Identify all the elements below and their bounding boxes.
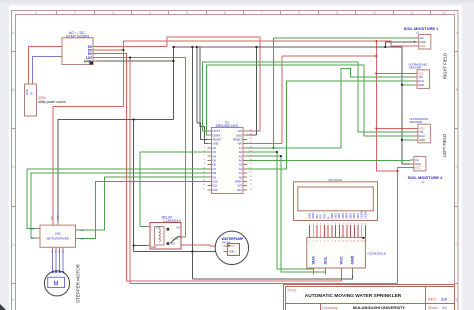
svg-text:D7: D7 bbox=[213, 167, 217, 171]
wire motor phase B1 bbox=[55, 252, 57, 272]
I2C module bottom pin stubs bbox=[314, 268, 353, 275]
svg-text:ECH: ECH bbox=[418, 79, 424, 83]
svg-text:GND: GND bbox=[151, 246, 157, 249]
wire motor phase A2 bbox=[62, 252, 64, 272]
svg-text:LEDK: LEDK bbox=[363, 211, 367, 218]
ultrasonic sensor 1 body bbox=[417, 70, 430, 89]
svg-text:Ain: Ain bbox=[420, 36, 424, 40]
wire soil moisture 1 GND bbox=[385, 42, 415, 47]
svg-text:TITLE:: TITLE: bbox=[287, 289, 297, 293]
svg-text:1/1: 1/1 bbox=[442, 306, 447, 310]
wire 5V top rail to arduino VIN bbox=[95, 37, 260, 131]
step-down converter U3 body bbox=[62, 38, 93, 65]
svg-text:GND: GND bbox=[419, 138, 425, 142]
water pump circle bbox=[215, 231, 248, 264]
title block outer border bbox=[284, 285, 455, 310]
svg-text:A6: A6 bbox=[239, 150, 243, 154]
motor driver left pin stubs bbox=[36, 229, 40, 239]
wire utility 5V (blue) bbox=[33, 57, 58, 80]
wire D1/TX to ultrasonic 2 TRIG bbox=[203, 62, 414, 132]
title block inner border bbox=[286, 287, 455, 310]
wire 12V to relay COM bbox=[95, 57, 186, 236]
svg-text:VCC: VCC bbox=[229, 244, 235, 248]
soil moisture 1 pin stubs bbox=[415, 38, 419, 46]
svg-text:Ain: Ain bbox=[415, 158, 419, 162]
wire A7 to soil moisture 1 Ain bbox=[247, 38, 415, 148]
svg-text:REV:: REV: bbox=[428, 297, 437, 302]
svg-text:SOIL MOISTURE 1: SOIL MOISTURE 1 bbox=[404, 26, 440, 31]
svg-text:C: C bbox=[455, 165, 458, 169]
stepper motor pin marks bbox=[52, 271, 64, 273]
svg-text:Company:: Company: bbox=[322, 306, 338, 310]
svg-text:VCC: VCC bbox=[339, 256, 344, 265]
svg-text:A4: A4 bbox=[239, 159, 243, 163]
relay switch contacts bbox=[167, 228, 181, 244]
svg-text:1: 1 bbox=[35, 11, 37, 15]
wire ultrasonic 2 GND bbox=[402, 139, 414, 141]
svg-text:COM: COM bbox=[173, 238, 179, 241]
wire ultrasonic 1 GND bbox=[402, 84, 413, 86]
svg-text:ARDUINO UNO: ARDUINO UNO bbox=[216, 124, 239, 128]
wire I2C GND return bbox=[192, 275, 352, 279]
svg-text:TRI: TRI bbox=[419, 130, 423, 134]
wire arduino GND to rail bbox=[247, 47, 257, 135]
LCD1602 pin labels bbox=[307, 211, 367, 218]
wire A5 to I2C SCL bbox=[247, 156, 325, 275]
wire D9 to motor driver IN2 bbox=[31, 173, 208, 238]
I2C module top pin marks bbox=[309, 240, 367, 242]
svg-text:D: D bbox=[12, 243, 15, 247]
svg-text:IC2 MODULE: IC2 MODULE bbox=[368, 252, 386, 256]
LCD1602 screen bbox=[298, 187, 374, 211]
svg-text:GND: GND bbox=[418, 83, 424, 87]
wire 5V drop to ultrasonic and soil 2 VCC bbox=[376, 41, 414, 171]
svg-text:M: M bbox=[54, 282, 59, 288]
soil moisture 2 body bbox=[414, 156, 426, 171]
motor driver body bbox=[40, 225, 76, 247]
svg-text:GND: GND bbox=[229, 250, 235, 254]
svg-text:TRI: TRI bbox=[418, 75, 422, 79]
wire GND branch to relay and pump bbox=[134, 119, 224, 251]
ultrasonic sensor 2 pin stubs bbox=[414, 128, 418, 140]
wire 5V rail to soil moisture 1 VCC bbox=[95, 41, 415, 50]
svg-text:1.0: 1.0 bbox=[441, 297, 447, 302]
utility power source pins top bbox=[29, 80, 33, 84]
svg-text:3: 3 bbox=[112, 11, 114, 15]
I2C module body bbox=[307, 237, 366, 268]
arduino right pin names bbox=[233, 129, 242, 192]
svg-text:LEFT FIELD: LEFT FIELD bbox=[442, 134, 447, 157]
svg-text:D6: D6 bbox=[213, 163, 217, 167]
wire soil moisture 2 VCC rail bbox=[130, 57, 410, 283]
title block company cell divider bbox=[320, 304, 322, 310]
motor driver right pin stubs bbox=[76, 230, 80, 239]
utility power source body bbox=[25, 84, 37, 116]
stepper motor circle bbox=[44, 271, 69, 296]
svg-text:NO: NO bbox=[177, 226, 181, 229]
svg-text:GND: GND bbox=[415, 162, 421, 166]
svg-text:D: D bbox=[455, 243, 458, 247]
svg-text:D8: D8 bbox=[213, 171, 217, 175]
svg-text:2: 2 bbox=[74, 11, 76, 15]
svg-text:D11: D11 bbox=[213, 184, 218, 188]
wire GND right vertical to soil moisture 2 GND bbox=[402, 47, 410, 164]
svg-text:10: 10 bbox=[372, 11, 376, 15]
soil moisture 1 body bbox=[419, 35, 431, 50]
svg-text:RESET: RESET bbox=[213, 138, 222, 142]
svg-text:+5V: +5V bbox=[237, 142, 242, 146]
wire relay NO to water pump VCC bbox=[186, 245, 224, 246]
wire 5V to motor driver 12V pin bbox=[53, 50, 123, 221]
svg-text:MOTORDRIVER: MOTORDRIVER bbox=[47, 237, 70, 241]
relay coil bbox=[155, 227, 165, 246]
svg-text:VCC: VCC bbox=[418, 71, 424, 75]
wire D11 to motor driver IN4 bbox=[80, 181, 208, 238]
relay pin stubs bbox=[146, 227, 186, 246]
relay body bbox=[150, 223, 181, 250]
motor driver bottom pin stubs bbox=[53, 247, 64, 251]
svg-text:D13: D13 bbox=[237, 188, 242, 192]
motor driver top pin stubs bbox=[53, 221, 58, 225]
svg-text:GND: GND bbox=[25, 89, 29, 95]
svg-text:C: C bbox=[12, 165, 15, 169]
wire D0/RX to ultrasonic 2 ECHO bbox=[207, 65, 414, 136]
arduino right pin numbers bbox=[250, 130, 253, 191]
svg-text:D4: D4 bbox=[213, 154, 217, 158]
wire D8 to motor driver IN1 bbox=[27, 169, 208, 229]
arduino left pin stubs bbox=[208, 131, 212, 190]
wire A6 to I2C SDA bbox=[247, 152, 314, 275]
svg-text:VCC: VCC bbox=[419, 126, 425, 130]
step-down pin stubs left bbox=[58, 47, 62, 57]
svg-text:A1: A1 bbox=[239, 171, 243, 175]
wire A7 net to ultrasonic 1 TRIG bbox=[341, 68, 413, 148]
svg-text:AREF: AREF bbox=[235, 180, 243, 184]
wire A4 to soil moisture 2 Ain bbox=[247, 159, 410, 161]
svg-text:GND: GND bbox=[350, 256, 355, 265]
svg-text:RESET: RESET bbox=[233, 138, 242, 142]
svg-text:5VB: 5VB bbox=[156, 226, 161, 229]
arduino left pin names bbox=[213, 129, 222, 192]
svg-text:SENSOR: SENSOR bbox=[409, 66, 423, 70]
svg-text:A2: A2 bbox=[239, 167, 243, 171]
svg-text:LM2: LM2 bbox=[55, 232, 61, 236]
svg-text:3V3: 3V3 bbox=[237, 184, 242, 188]
svg-text:GND: GND bbox=[84, 59, 92, 63]
svg-text:SDA: SDA bbox=[311, 256, 316, 265]
wire GND rail to arduino GND pin bbox=[200, 47, 207, 144]
svg-text:5: 5 bbox=[186, 11, 188, 15]
svg-text:RIGHT FIELD: RIGHT FIELD bbox=[443, 53, 448, 79]
arduino left pin numbers bbox=[203, 130, 206, 191]
svg-text:D10: D10 bbox=[213, 180, 218, 184]
svg-text:8: 8 bbox=[298, 11, 300, 15]
wire GND to motor driver bbox=[58, 119, 174, 220]
svg-text:SENSOR: SENSOR bbox=[410, 120, 424, 124]
svg-text:D9: D9 bbox=[213, 175, 217, 179]
svg-text:4: 4 bbox=[149, 11, 151, 15]
svg-text:A5: A5 bbox=[239, 154, 243, 158]
step-down pin stubs right bbox=[93, 47, 97, 62]
soil moisture 2 pin stubs bbox=[410, 160, 414, 167]
water pump inner box bbox=[227, 244, 239, 256]
svg-text:12: 12 bbox=[442, 11, 446, 15]
LCD1602 body bbox=[294, 182, 378, 221]
svg-text:D12: D12 bbox=[213, 188, 218, 192]
svg-text:VCC: VCC bbox=[415, 166, 421, 170]
ultrasonic sensor 1 pin stubs bbox=[413, 73, 417, 84]
svg-text:WH1602B: WH1602B bbox=[328, 178, 342, 182]
wire D3 to relay coil bbox=[140, 152, 208, 227]
svg-text:ECH: ECH bbox=[419, 134, 425, 138]
LCD1602 pin stubs to I2C bbox=[310, 225, 366, 237]
svg-text:D3: D3 bbox=[213, 150, 217, 154]
svg-text:GND: GND bbox=[213, 142, 219, 146]
svg-text:GND: GND bbox=[420, 40, 426, 44]
frame row ticks left bbox=[12, 52, 16, 284]
wire 5V to I2C VCC bottom rail bbox=[95, 54, 342, 281]
svg-text:9: 9 bbox=[336, 11, 338, 15]
svg-text:D1/TX: D1/TX bbox=[213, 129, 221, 133]
frame column ticks top bbox=[57, 11, 431, 15]
svg-text:STEPPER MOTOR: STEPPER MOTOR bbox=[76, 263, 81, 303]
title block row divider bbox=[286, 303, 455, 305]
wire D10 to motor driver IN3 bbox=[80, 177, 208, 230]
svg-text:6: 6 bbox=[224, 11, 226, 15]
svg-text:D0/RX: D0/RX bbox=[213, 133, 221, 137]
title block rev cell divider bbox=[425, 287, 427, 310]
svg-text:GND: GND bbox=[236, 133, 242, 137]
svg-text:NC: NC bbox=[172, 243, 176, 246]
wire arduino +5V to sensor VCC rail bbox=[247, 56, 376, 144]
motor driver bottom pin labels bbox=[52, 249, 65, 253]
svg-text:MULUNGUSHI UNIVERSITY: MULUNGUSHI UNIVERSITY bbox=[353, 305, 406, 310]
LCD1602 pin numbers bbox=[309, 223, 367, 225]
svg-text:A0: A0 bbox=[239, 175, 243, 179]
svg-text:VCC: VCC bbox=[420, 44, 426, 48]
svg-text:5V: 5V bbox=[30, 92, 34, 95]
svg-text:SCL: SCL bbox=[322, 256, 327, 265]
svg-text:GND: GND bbox=[57, 215, 59, 220]
I2C module junction dot top right bbox=[362, 237, 364, 239]
wire motor phase B2 bbox=[59, 252, 61, 272]
svg-text:A3: A3 bbox=[239, 163, 243, 167]
UI corner artifact bottom-left bbox=[0, 304, 6, 310]
wire motor phase A1 bbox=[52, 252, 54, 272]
wire GND rail to arduino RESET bbox=[197, 47, 208, 139]
frame row ticks right bbox=[455, 52, 459, 284]
soil moisture 1 pin names bbox=[420, 36, 426, 48]
ultrasonic sensor 2 pin names bbox=[419, 126, 425, 142]
arduino right pin stubs bbox=[243, 131, 247, 190]
svg-text:D5: D5 bbox=[213, 159, 217, 163]
svg-text:STEP DOWN: STEP DOWN bbox=[66, 35, 89, 39]
canvas top shading bbox=[0, 0, 474, 3]
svg-text:11: 11 bbox=[410, 11, 414, 15]
svg-text:12V: 12V bbox=[52, 216, 54, 220]
svg-text:Utility power source: Utility power source bbox=[38, 100, 66, 104]
water pump pin stubs bbox=[223, 246, 227, 252]
step-down pin names bbox=[84, 45, 93, 64]
ultrasonic sensor 1 pin names bbox=[418, 71, 424, 86]
wire GND top rail bbox=[174, 46, 402, 48]
wire 230V to step-down (red) bbox=[29, 47, 58, 81]
soil moisture 2 pin names bbox=[415, 158, 421, 169]
ultrasonic sensor 2 body bbox=[418, 124, 431, 143]
wire A2 to ultrasonic 1 ECHO bbox=[247, 81, 413, 169]
wire GND backbone bbox=[191, 47, 193, 279]
svg-text:AUTOMATIC MOVING WATER SPRINKL: AUTOMATIC MOVING WATER SPRINKLER bbox=[305, 293, 402, 299]
wire GND step-down to rail bbox=[95, 47, 174, 119]
svg-text:SOIL MOISTURE 2: SOIL MOISTURE 2 bbox=[408, 175, 444, 180]
svg-text:7: 7 bbox=[261, 11, 263, 15]
svg-text:A7: A7 bbox=[239, 146, 243, 150]
svg-text:D2: D2 bbox=[213, 146, 217, 150]
svg-text:Sheet:: Sheet: bbox=[428, 306, 438, 310]
stepper motor inner box bbox=[48, 277, 65, 287]
svg-text:VIN: VIN bbox=[238, 129, 243, 133]
arduino U1 body bbox=[212, 128, 244, 194]
